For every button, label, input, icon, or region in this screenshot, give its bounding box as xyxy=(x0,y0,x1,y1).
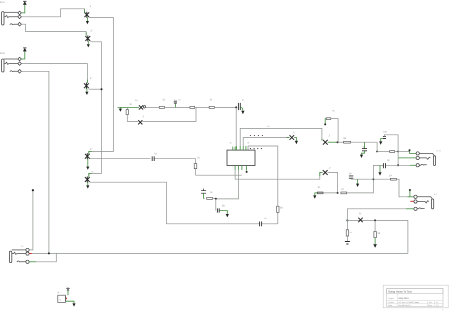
ground below T1 xyxy=(86,17,89,24)
wire node to R15 xyxy=(377,151,390,153)
node on K1 sleeve net xyxy=(397,164,399,166)
wire green entries at transistors xyxy=(85,9,323,176)
svg-text:m: m xyxy=(179,98,181,101)
capacitor C5 (series on lower bus) xyxy=(260,217,268,226)
capacitor TP to ground xyxy=(349,172,374,187)
node chain/C3 xyxy=(235,106,237,108)
jack J1 pin 2 xyxy=(18,15,22,19)
U1 top pin stubs xyxy=(233,146,246,150)
svg-text:C·: C· xyxy=(242,99,245,102)
ground on K1 sleeve net xyxy=(373,165,392,179)
svg-text:1": 1" xyxy=(90,29,92,32)
transistor X2 xyxy=(323,134,331,144)
capacitor C7 to ground xyxy=(216,199,229,218)
jack J1 pin 3 xyxy=(18,22,22,26)
wire T1 collector to T4 base xyxy=(89,18,114,155)
ground arrow chain start xyxy=(119,107,122,111)
wire feedback return xyxy=(142,107,196,121)
battery B1 xyxy=(58,291,66,302)
label dots upper xyxy=(250,135,263,136)
red net stub at J3 ring xyxy=(29,253,32,255)
wire R15 to riser xyxy=(395,151,399,153)
capacitor C10 (bypass) xyxy=(379,130,398,151)
wire J1 tip to T1 base xyxy=(21,9,84,17)
transistor T2 xyxy=(85,29,92,41)
resistor R9 (vertical) xyxy=(248,146,283,224)
svg-text:Sue 09/13 v2.3: Sue 09/13 v2.3 xyxy=(398,304,410,307)
svg-text:Case: Case xyxy=(428,304,432,307)
resistor R13 (left leg) xyxy=(346,230,353,236)
svg-text:+: + xyxy=(66,286,67,289)
wire X3 output down to node xyxy=(328,172,338,193)
transistor T4 xyxy=(85,148,93,159)
jack J2 pin 1 xyxy=(18,57,22,61)
ground (up) for J2 sleeve xyxy=(21,48,26,59)
jack J2 pin 3 xyxy=(18,70,22,74)
wire J2 ring down long vertical xyxy=(21,71,49,253)
resistor R12 xyxy=(390,178,396,180)
svg-text:m: m xyxy=(91,170,93,173)
wire J3 sleeve to bus xyxy=(29,261,36,263)
svg-text:m.: m. xyxy=(264,217,267,220)
wire T2 collector to T5 base xyxy=(89,42,102,177)
transistor T5 xyxy=(85,170,94,182)
ground below T2 xyxy=(87,41,90,47)
ground in power box mid xyxy=(373,238,377,248)
resistor R8 output net xyxy=(338,137,378,151)
wire C4 to IC pin xyxy=(155,159,242,176)
ground (up) tall left xyxy=(29,189,34,250)
resistor R11 xyxy=(341,179,374,194)
jack J2 pin 2 xyxy=(18,62,22,66)
resistor R1 (vertical, feedback) xyxy=(126,107,138,121)
svg-text:b··: b·· xyxy=(22,245,25,248)
node X3 output xyxy=(337,192,339,194)
transistor X3 xyxy=(323,167,331,175)
node T2/T3 junction xyxy=(101,88,103,90)
resistor R15 xyxy=(390,151,395,153)
battery plus pin up xyxy=(66,286,70,300)
wire chain seg1 xyxy=(146,106,159,108)
svg-text:7s: 7s xyxy=(59,299,61,302)
svg-text:Amp cFro: Amp cFro xyxy=(398,297,409,300)
battery minus to ground xyxy=(66,301,76,306)
wire T4 collector xyxy=(90,158,151,160)
input jack J2 xyxy=(0,52,18,72)
wire U1 pin to X3 input xyxy=(235,170,323,179)
node K1 feed xyxy=(376,151,378,153)
node U1 pin stub dot xyxy=(246,171,248,173)
svg-text:1/1: 1/1 xyxy=(436,304,439,307)
op-amp IC U1 xyxy=(227,142,255,166)
wire J2 tip to T3 base xyxy=(21,64,87,83)
resistor R14 (mid leg) xyxy=(374,219,381,237)
svg-text:m..: m.. xyxy=(350,231,353,234)
svg-text:Version: Version xyxy=(388,301,394,304)
svg-text:v27 Nov 21, 96085, Made: v27 Nov 21, 96085, Made xyxy=(398,301,419,304)
wire R6 to node xyxy=(213,197,216,199)
wire C5 to R-node xyxy=(262,223,278,225)
svg-text:o··n: o··n xyxy=(437,149,442,152)
wire T3 collector to node xyxy=(89,88,102,90)
node X2 output xyxy=(337,141,339,143)
wire T5 collector to lower bus xyxy=(90,182,260,224)
svg-text:A2: A2 xyxy=(436,301,438,304)
wire main chain left xyxy=(118,106,140,108)
svg-text:m: m xyxy=(268,125,270,128)
title block frame xyxy=(383,285,448,308)
node riser top xyxy=(397,151,399,153)
wire X2 output to node xyxy=(328,141,338,143)
svg-text:IN-A: IN-A xyxy=(0,1,5,4)
power box outline xyxy=(347,218,408,254)
wire right net to jack K2 xyxy=(373,178,390,180)
wire R12 to K2 tip xyxy=(396,179,407,197)
capacitor C4 (series) xyxy=(152,153,157,161)
svg-text:TP: TP xyxy=(349,172,352,175)
resistor R4 xyxy=(209,99,214,109)
wire chain seg3 xyxy=(195,106,209,108)
svg-text:Project: Project xyxy=(388,297,394,300)
svg-text:P···: P··· xyxy=(58,291,62,294)
diode D2 on power box top xyxy=(358,213,362,223)
bypass jack J3 xyxy=(9,245,29,264)
wire U1 pin down to RC subcircuit xyxy=(216,170,239,199)
svg-text:IN-B: IN-B xyxy=(0,52,5,55)
svg-text:1"': 1"' xyxy=(90,148,93,151)
output jack K2 xyxy=(414,193,437,210)
ground branch left of node xyxy=(313,193,337,199)
transistor X1 xyxy=(290,132,295,140)
resistor R6 xyxy=(207,198,213,200)
svg-text:J.P: J.P xyxy=(389,175,393,178)
label pin dots xyxy=(250,148,262,149)
node power feed xyxy=(346,219,348,221)
jack J1 pin 1 xyxy=(18,11,22,15)
wire chain node down to IC pin xyxy=(235,107,237,150)
U1 bottom pin stubs xyxy=(235,166,247,171)
transistor Q1 on main line xyxy=(139,105,146,109)
wire U1 to X2 (upper net) xyxy=(240,125,322,146)
ground (up) for J1 sleeve xyxy=(21,1,26,13)
svg-text:Rev: Rev xyxy=(429,301,432,304)
node bus / jack2 ring vertical xyxy=(48,252,50,254)
bypass hook over X2 xyxy=(324,109,338,142)
node RC subcircuit xyxy=(215,198,217,200)
wire to K1 tip stub xyxy=(398,151,410,153)
svg-text:Date: Date xyxy=(388,304,392,307)
wire into K1 ring xyxy=(398,157,416,159)
svg-text:Going Home To Test: Going Home To Test xyxy=(388,291,412,294)
output jack K1 xyxy=(416,149,441,166)
long ground bus (bottom) xyxy=(32,252,408,254)
resistor R5 (vertical) xyxy=(194,164,197,169)
transistor T3 xyxy=(84,77,92,89)
node mid right xyxy=(372,178,374,180)
node stub above K1 tip xyxy=(409,149,411,151)
ground below T4 xyxy=(86,159,89,170)
svg-text:m.: m. xyxy=(332,109,335,112)
capacitor C2 (stub up) xyxy=(174,98,177,107)
wire chain seg2 xyxy=(165,106,190,108)
riser down K1 xyxy=(397,152,399,166)
earth ground power box left xyxy=(345,242,350,245)
resistor R10 xyxy=(317,186,323,194)
resistor R3 xyxy=(190,107,195,109)
diode D1 on feedback loop xyxy=(138,116,144,125)
wire K2 sleeve to power box xyxy=(406,208,414,210)
capacitor C6 xyxy=(201,189,213,199)
ground below T5 xyxy=(86,182,89,188)
svg-text:o·r: o·r xyxy=(434,193,437,196)
wire U1 to X1 (mid net) xyxy=(243,138,289,147)
green drop into K1 tip xyxy=(410,151,417,154)
transistor T1 xyxy=(84,5,91,18)
red net stub at K2 ring xyxy=(410,200,413,202)
ground below T3 xyxy=(85,88,88,95)
resistor R2 xyxy=(159,99,166,109)
capacitor C12 on K1 sleeve net xyxy=(383,159,416,169)
capacitor C9 (16) to ground xyxy=(360,142,367,158)
node stub above K2 tip xyxy=(409,189,411,197)
capacitor C3 to ground xyxy=(238,99,244,114)
wire chain seg4 xyxy=(214,106,236,108)
ground after X1 xyxy=(294,138,298,145)
input jack J1 xyxy=(0,1,18,25)
wire J1 ring to T2 base xyxy=(21,24,86,35)
title block table xyxy=(387,289,445,311)
